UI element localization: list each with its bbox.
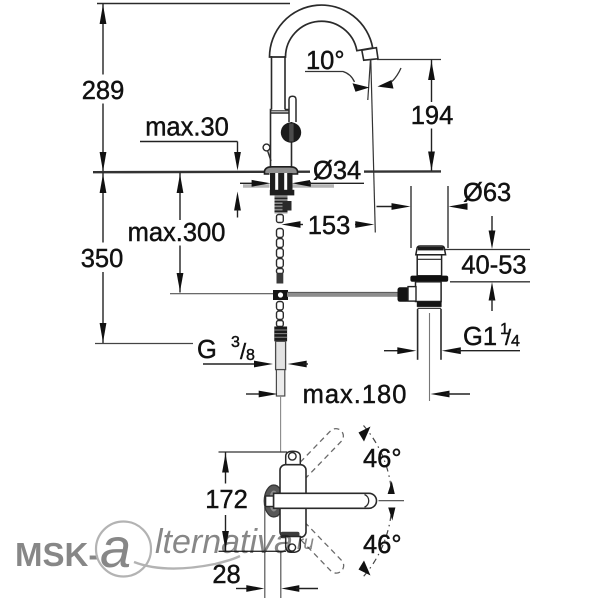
plan spout bar bbox=[274, 493, 377, 508]
dimension O34 lines and arrows bbox=[240, 182, 254, 184]
svg-text:max.30: max.30 bbox=[145, 114, 229, 142]
dimension 194 vertical line bbox=[431, 60, 433, 103]
dimension 350 arrow down bbox=[100, 323, 107, 343]
10deg label underline and leader arc left bbox=[305, 72, 355, 83]
spout 10deg tilted axis line bbox=[368, 59, 371, 100]
mounting nut below deck (striped) bbox=[270, 173, 293, 190]
pop-up pull rod (chain links) bbox=[277, 215, 284, 274]
dimension 350 arrow up bbox=[100, 174, 107, 193]
dimension 350 bottom reference line bbox=[95, 343, 193, 345]
label 40-53 bbox=[459, 253, 529, 279]
svg-text:lternativa: lternativa bbox=[155, 523, 293, 561]
dimension 40-53 vertical and arrows bbox=[491, 216, 493, 232]
top reference line (289) bbox=[97, 3, 290, 5]
pull rod to waste linkage ball bbox=[273, 290, 288, 300]
drain pipe centerline bbox=[429, 313, 431, 401]
svg-text:153: 153 bbox=[308, 212, 351, 240]
washer band bbox=[270, 190, 295, 196]
O63 dimension line with arrows bbox=[377, 206, 395, 208]
svg-text:a: a bbox=[100, 516, 131, 579]
svg-text:3: 3 bbox=[231, 334, 240, 351]
svg-text:194: 194 bbox=[411, 102, 454, 130]
194 top reference line bbox=[377, 59, 441, 61]
spout outlet stream vertical line bbox=[371, 60, 376, 233]
dimension max.300 arrow down bbox=[177, 273, 184, 292]
faucet riser tube bbox=[272, 56, 286, 110]
label 194 bbox=[410, 103, 454, 129]
svg-text:G1: G1 bbox=[463, 323, 497, 351]
deck underside soft line bbox=[243, 184, 334, 188]
handle ball knob bbox=[281, 122, 301, 142]
dimension max.300 vertical line bbox=[179, 173, 181, 222]
waste locknut band bbox=[417, 302, 442, 307]
svg-text:350: 350 bbox=[81, 245, 124, 273]
swivel double arrow at rest position bbox=[388, 481, 395, 494]
pop-up waste horizontal rod bbox=[287, 292, 398, 297]
28 extension line right (centerline) bbox=[280, 552, 282, 598]
swivel dashed spout copy lower (-46deg) bbox=[274, 502, 347, 576]
28 extension line left (escutcheon edge) bbox=[264, 507, 266, 598]
dimension max.300 bottom reference / pop-up rod thin line bbox=[170, 293, 274, 295]
riser collar bbox=[271, 110, 292, 167]
dimension 289 arrow up bbox=[100, 5, 107, 25]
dimension 289 arrow down bbox=[100, 152, 107, 172]
svg-text:ru: ru bbox=[297, 533, 314, 554]
plan body bbox=[280, 465, 306, 538]
40-53 top reference line bbox=[444, 249, 530, 251]
plan body bottom dark bar bbox=[281, 532, 300, 539]
svg-text:Ø34: Ø34 bbox=[313, 157, 361, 185]
svg-text:G: G bbox=[197, 336, 217, 364]
lever handle bar bbox=[289, 96, 296, 122]
svg-text:Ø63: Ø63 bbox=[463, 179, 511, 207]
G3/8 threaded end bbox=[274, 327, 287, 342]
dimension 172 vertical line bbox=[225, 452, 227, 484]
dimension 194 arrow down bbox=[428, 152, 435, 171]
dimension 350 vertical line bbox=[102, 173, 104, 244]
G3/8 dimension line with inward arrows bbox=[203, 363, 258, 365]
swivel arc arrowhead upper bbox=[359, 427, 371, 442]
supply pipe upper bbox=[276, 341, 286, 369]
plan spout left end cap bbox=[266, 496, 274, 507]
dimension max.30 arrow down to deck bbox=[234, 152, 241, 171]
O63 extension lines bbox=[410, 186, 412, 248]
dimension 153 left arrow bbox=[282, 221, 301, 228]
label 172 bbox=[204, 484, 248, 514]
label max.300 bbox=[127, 220, 227, 246]
svg-text:max.300: max.300 bbox=[128, 219, 226, 247]
spout aerator tip bbox=[362, 48, 378, 61]
svg-text:MSK-: MSK- bbox=[15, 536, 99, 573]
label 153 bbox=[303, 211, 355, 239]
plan body top tab bbox=[286, 451, 301, 465]
10deg leader arc right bbox=[392, 68, 401, 82]
base flange bbox=[265, 167, 298, 174]
plan centerline from supply pipe down bbox=[280, 396, 282, 452]
G1 1/4 dimension arrows bbox=[384, 350, 400, 352]
svg-text:max.180: max.180 bbox=[303, 381, 408, 409]
pop-up waste: plug top cup bbox=[416, 246, 446, 255]
svg-text:28: 28 bbox=[212, 561, 240, 589]
svg-text:46°: 46° bbox=[363, 445, 402, 473]
waste neck bbox=[417, 255, 441, 276]
pop-up rod knob on body bbox=[263, 144, 270, 151]
drain pipe walls bbox=[417, 309, 419, 360]
dimension max.30 arrow up from below bbox=[234, 192, 241, 211]
pull rod links below ball bbox=[277, 302, 284, 327]
dimension 28 line with arrows bbox=[236, 588, 250, 590]
plan body bottom tab bbox=[286, 537, 301, 553]
svg-text:4: 4 bbox=[511, 333, 520, 350]
svg-text:289: 289 bbox=[82, 77, 125, 105]
swivel arc dash-dot bbox=[364, 426, 392, 488]
dimension 153 line bbox=[300, 224, 305, 226]
waste friction ring bbox=[410, 276, 448, 282]
supply pipe lower bbox=[276, 370, 284, 396]
dimension max.30 horizontal line bbox=[140, 141, 238, 143]
dimension 172 top reference line bbox=[219, 451, 288, 453]
deck mounting surface line bbox=[93, 170, 441, 173]
swivel dashed spout copy upper (+46deg) bbox=[274, 426, 347, 500]
spout gooseneck tube bbox=[270, 5, 373, 57]
plan escutcheon ring bbox=[264, 485, 283, 517]
label 289 bbox=[80, 75, 126, 104]
dimension 153 right arrow bbox=[355, 221, 374, 228]
rod knuckle at waste bbox=[398, 287, 410, 302]
svg-text:10°: 10° bbox=[306, 47, 345, 75]
plan spout inner cap arc bbox=[365, 495, 369, 508]
dimension max.300 arrow up bbox=[177, 174, 184, 193]
waste side boss bbox=[408, 287, 416, 302]
svg-text:46°: 46° bbox=[363, 531, 402, 559]
swivel arc arrowhead lower bbox=[359, 561, 371, 576]
dimension 172 bottom reference line bbox=[219, 550, 287, 552]
rest position centerline bbox=[379, 500, 405, 502]
max.180 dimension line left part bbox=[246, 393, 262, 395]
dimension 289 vertical line bbox=[102, 4, 104, 76]
waste body bbox=[416, 282, 442, 302]
svg-text:172: 172 bbox=[205, 486, 248, 514]
svg-text:40-53: 40-53 bbox=[461, 252, 526, 280]
max.180 dimension line right part bbox=[431, 391, 450, 398]
label 350 bbox=[79, 243, 125, 272]
threaded shank bbox=[275, 195, 288, 213]
dimension 194 arrow up bbox=[428, 61, 435, 80]
40-53 bottom reference line bbox=[450, 281, 530, 283]
watermark circle logo bbox=[96, 522, 151, 577]
svg-text:8: 8 bbox=[246, 347, 255, 364]
label O34 bbox=[310, 158, 364, 182]
